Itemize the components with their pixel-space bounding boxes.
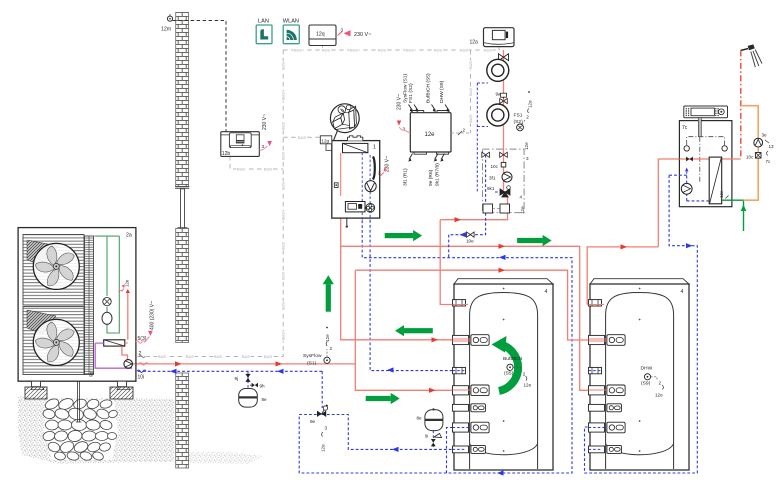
svg-text:WLAN: WLAN [283,19,299,25]
svg-text:BUS: BUS [281,242,286,250]
svg-text:BUS: BUS [484,48,492,53]
svg-text:12e: 12e [425,132,436,138]
svg-text:BUS: BUS [406,48,414,53]
svg-text:2: 2 [463,128,466,133]
svg-text:9g: 9g [89,371,94,377]
svg-text:12e: 12e [524,383,532,388]
svg-text:3: 3 [341,28,344,33]
svg-text:1: 1 [373,145,376,151]
svg-text:BUS: BUS [434,48,442,53]
svg-text:BUS: BUS [214,354,222,359]
svg-text:(S1): (S1) [307,361,317,367]
svg-text:12e: 12e [528,100,533,108]
svg-text:8e: 8e [262,397,268,402]
svg-text:BufBtCH (S5): BufBtCH (S5) [426,73,432,103]
svg-text:7c: 7c [766,159,772,164]
svg-text:10e: 10e [466,239,474,244]
svg-text:9k1 (R7/8): 9k1 (R7/8) [435,163,441,186]
svg-text:BUS: BUS [264,354,272,359]
svg-text:3: 3 [526,156,529,161]
svg-text:BUS: BUS [294,48,302,53]
svg-text:BUS: BUS [281,272,286,280]
svg-text:BUS: BUS [468,115,473,123]
svg-text:4: 4 [681,289,684,295]
svg-text:BUS: BUS [158,354,166,359]
svg-text:2a: 2a [126,233,132,239]
svg-text:(S9): (S9) [641,381,651,387]
svg-text:2: 2 [659,381,662,386]
svg-text:BUS: BUS [460,48,468,53]
svg-text:12e: 12e [325,334,330,342]
svg-text:230 V~: 230 V~ [262,114,268,130]
svg-text:12e: 12e [655,393,663,398]
svg-text:12e: 12e [321,444,326,452]
svg-text:400 (230) V~: 400 (230) V~ [150,301,156,330]
svg-text:BUS: BUS [281,62,286,70]
svg-text:BUS: BUS [281,122,286,130]
svg-text:9h: 9h [260,383,266,388]
svg-text:BUS: BUS [281,182,286,190]
svg-text:BUS: BUS [237,167,245,172]
svg-text:9i: 9i [425,434,428,439]
svg-text:2: 2 [526,115,529,120]
svg-text:12g: 12g [321,138,329,143]
svg-text:10c: 10c [746,154,754,159]
svg-text:12a: 12a [470,40,479,46]
svg-text:2: 2 [523,372,526,377]
svg-text:3: 3 [262,144,265,149]
svg-text:9j: 9j [235,376,239,381]
svg-text:BUS: BUS [378,48,386,53]
svg-text:BUS: BUS [242,354,250,359]
svg-text:12e: 12e [719,190,724,198]
svg-text:7c: 7c [682,125,688,131]
svg-text:BUS: BUS [186,354,194,359]
svg-text:12e: 12e [524,142,529,150]
svg-text:4: 4 [520,195,523,200]
svg-text:DHW (S9): DHW (S9) [439,80,445,103]
svg-text:2: 2 [330,346,333,351]
svg-text:12m: 12m [161,27,171,33]
svg-text:9a: 9a [496,92,502,97]
svg-text:BUS: BUS [322,48,330,53]
svg-text:3f1: 3f1 [489,176,496,181]
svg-text:9e: 9e [310,419,316,424]
svg-text:9k1: 9k1 [487,186,495,191]
svg-text:3: 3 [378,171,381,176]
svg-text:4: 4 [545,289,548,295]
svg-text:BUS: BUS [468,61,473,69]
svg-text:3: 3 [325,426,328,431]
svg-text:BUS: BUS [298,135,306,140]
svg-text:BUS: BUS [468,88,473,96]
svg-text:230 V~: 230 V~ [354,32,371,38]
svg-text:12e: 12e [520,206,525,214]
svg-text:230 V~: 230 V~ [397,94,403,110]
svg-text:SysFlow (S1): SysFlow (S1) [403,74,409,103]
svg-text:BUS: BUS [281,212,286,220]
svg-text:10c: 10c [491,164,499,169]
svg-text:BUS: BUS [281,332,286,340]
svg-text:8e: 8e [417,416,423,421]
svg-text:BUS: BUS [281,92,286,100]
svg-text:(S5): (S5) [504,371,514,377]
svg-text:FS1: FS1 [514,113,523,119]
svg-text:BufBtCH: BufBtCH [503,356,522,362]
svg-text:SysFlow: SysFlow [303,353,322,359]
svg-text:12e: 12e [125,279,130,287]
svg-text:13: 13 [769,144,775,149]
svg-text:FS1 (S2): FS1 (S2) [408,83,414,103]
svg-text:9e (R6): 9e (R6) [428,169,434,186]
svg-text:BUS: BUS [264,167,272,172]
svg-text:BUS: BUS [281,152,286,160]
svg-text:12b: 12b [222,151,231,157]
svg-text:3e: 3e [762,133,768,138]
svg-text:10i: 10i [138,375,145,381]
svg-text:DHW: DHW [641,366,653,372]
svg-text:LAN: LAN [258,19,269,25]
svg-text:12q: 12q [316,32,325,38]
svg-text:BUS: BUS [350,48,358,53]
svg-text:3f1 (R1): 3f1 (R1) [403,168,409,186]
svg-text:BUS: BUS [281,302,286,310]
